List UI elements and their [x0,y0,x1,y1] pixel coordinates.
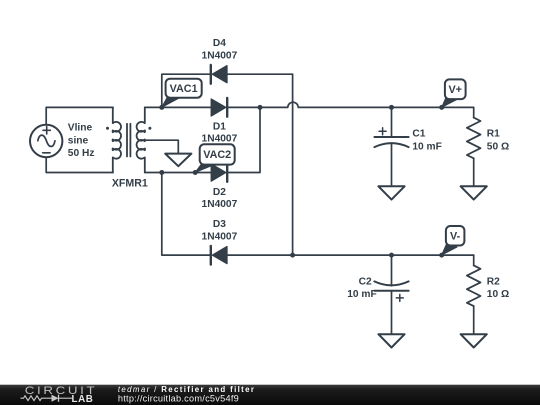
node VAC2 attachment dot [193,170,198,175]
wire C1 bottom [391,143,393,186]
svg-text:10 mF: 10 mF [347,289,376,300]
svg-text:50 Ω: 50 Ω [487,141,509,152]
svg-text:VAC1: VAC1 [170,83,198,95]
svg-text:50 Hz: 50 Hz [68,148,95,159]
wire secondary top to node VAC1 [145,106,162,108]
footer logo CIRCUIT [25,384,97,397]
junction secondary bottom [159,170,164,175]
wire secondary bottom down to D3 row [162,173,211,256]
svg-text:V+: V+ [448,84,462,96]
svg-text:1N4007: 1N4007 [202,134,238,145]
wire C2 top [391,255,393,286]
wire C1 top [391,107,393,137]
diode D2 [211,163,227,182]
svg-text:10 mF: 10 mF [412,141,441,152]
wire node VAC1 to D1 [162,106,211,108]
ground C2 [378,334,404,347]
svg-text:D3: D3 [213,219,226,230]
footer bar [0,385,540,405]
ground R1 [461,186,487,199]
wire D1 cathode to junction [227,106,260,108]
wire D1 row hop over vertical [260,102,392,107]
junction D3-D4 [290,253,295,258]
wire center tap [146,140,178,153]
svg-text:R1: R1 [487,129,500,140]
wire bottom rail of secondary to D2 [145,172,211,174]
capacitor C2 [374,281,408,301]
junction D1-D2 [258,105,263,110]
wire R2 top [473,255,475,265]
node VAC1 attachment dot [159,105,164,110]
wire R1 top [473,107,475,117]
svg-text:C2: C2 [359,276,372,287]
wire right vertical D4 to D3 row [292,74,294,255]
node V+ attachment dot [439,105,444,110]
svg-text:XFMR1: XFMR1 [112,177,148,189]
flag V- [442,226,465,255]
svg-text:1N4007: 1N4007 [202,199,238,210]
flag VAC1 [162,79,202,108]
wire V- rail [227,254,474,256]
ground center tap [165,154,191,167]
svg-text:D1: D1 [213,121,226,132]
resistor R2 [467,265,481,306]
flag V+ [442,79,466,107]
svg-text:sine: sine [68,136,89,147]
resistor R1 [467,118,481,159]
wire D4 anode to right vertical [227,73,293,75]
junction C2 [389,253,394,258]
svg-text:R2: R2 [487,276,500,287]
diode D1 [211,98,227,117]
wire R2 bottom [473,306,475,334]
wire node VAC1 up to D4 row [162,74,211,107]
diode D4 [211,65,227,84]
svg-text:1N4007: 1N4007 [202,231,238,242]
capacitor C1 [374,128,408,147]
svg-text:Vline: Vline [68,123,93,134]
ground C1 [378,186,404,199]
svg-text:LAB: LAB [72,394,94,405]
footer logo diode [52,395,59,402]
footer logo resistor zigzag [21,396,52,401]
svg-text:C1: C1 [412,129,425,140]
wire source loop [46,107,113,172]
svg-text:http://circuitlab.com/c5v54f9: http://circuitlab.com/c5v54f9 [118,394,239,404]
junction C1 [389,105,394,110]
ground R2 [461,334,487,347]
wire R1 bottom [473,158,475,186]
wire V+ rail [392,106,474,108]
svg-text:VAC2: VAC2 [203,149,231,161]
svg-text:10 Ω: 10 Ω [487,289,509,300]
wire C2 bottom [391,291,393,335]
diode D3 [211,246,227,265]
node V- attachment dot [439,253,444,258]
svg-text:D2: D2 [213,187,226,198]
svg-text:V-: V- [450,231,461,243]
svg-text:1N4007: 1N4007 [202,50,238,61]
voltage source V1 (Vline) [30,125,62,157]
wire junction down to D2 cathode [227,107,260,172]
flag VAC2 [195,144,235,172]
transformer XFMR1 [106,107,151,172]
label Vline value [68,123,95,159]
svg-text:D4: D4 [213,38,226,49]
